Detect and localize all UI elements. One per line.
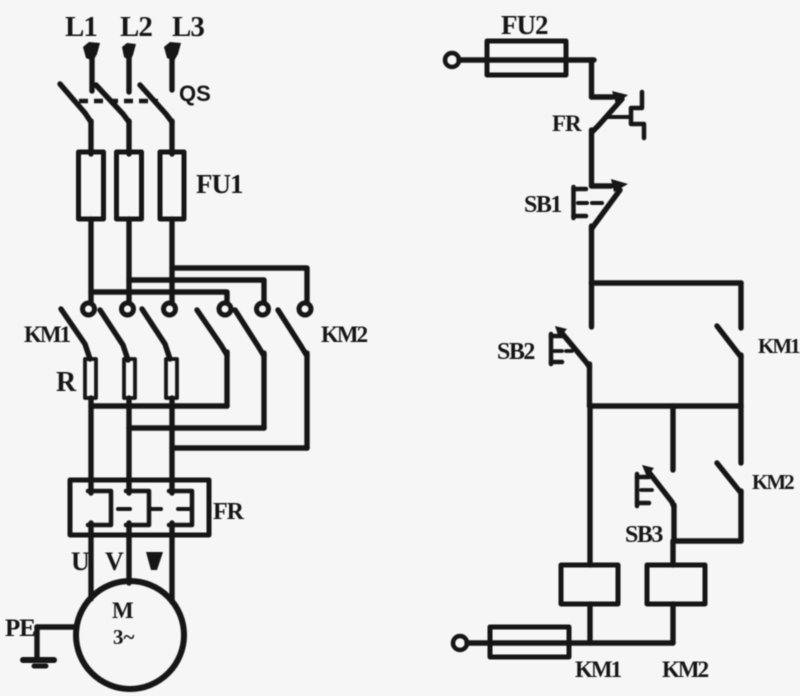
svg-text:PE: PE xyxy=(5,615,35,642)
FR heater tab 1 xyxy=(118,507,130,511)
wire R to FR phase2 xyxy=(126,398,131,481)
wire junction C horizontal xyxy=(674,538,741,543)
resistor R phase1 xyxy=(85,359,96,398)
button SB1 stem dash 1 xyxy=(578,201,587,205)
button SB1 jog xyxy=(592,183,612,188)
wire branch L1 to KM2 contact 4 xyxy=(91,292,227,302)
svg-text:KM1: KM1 xyxy=(24,322,71,347)
contact KM1 terminal circle 1 xyxy=(83,303,95,315)
wire FR to motor W xyxy=(169,535,174,602)
button SB1 cap top arm xyxy=(574,187,587,192)
button SB1 stem dash 2 xyxy=(592,201,602,205)
wire junction B horizontal xyxy=(590,403,742,409)
button SB1 blade xyxy=(592,190,621,229)
contact KM1 blade 2 xyxy=(100,310,128,360)
coil KM2 xyxy=(647,565,705,604)
wire junction A to KM1 aux contact xyxy=(738,283,743,328)
button SB2 arrowhead xyxy=(555,326,567,338)
contact KM1 aux blade xyxy=(717,326,741,357)
ground symbol bar 1 xyxy=(23,657,54,663)
fuse FU2 xyxy=(487,41,566,75)
wire inside FR box phase2 top xyxy=(126,480,131,493)
control terminal ring top xyxy=(445,53,459,67)
wire PE drop xyxy=(34,627,39,658)
svg-text:SB1: SB1 xyxy=(524,192,561,218)
button SB3 cap bar xyxy=(635,474,640,506)
svg-text:KM2: KM2 xyxy=(752,470,794,494)
coil KM1 xyxy=(561,565,618,604)
FR heater element phase2 xyxy=(126,491,149,525)
contact KM2 terminal circle 5 xyxy=(257,303,269,315)
wire terminal to FU2 and through xyxy=(459,57,594,62)
wire branch L2 to KM2 contact 5 xyxy=(129,280,264,302)
wire KM2 aux drop xyxy=(738,491,743,541)
switch QS blade 1 xyxy=(60,84,91,122)
contact KM1 blade 3 xyxy=(142,309,170,359)
contact KM2 terminal circle 4 xyxy=(219,303,231,315)
svg-text:L1: L1 xyxy=(65,11,97,43)
FR NC contact blade xyxy=(592,99,622,132)
switch QS blade 3 xyxy=(140,85,172,122)
svg-text:3~: 3~ xyxy=(113,625,135,649)
wire KM1 aux drop xyxy=(738,355,743,463)
button SB2 cap top arm xyxy=(551,334,562,339)
svg-text:KM1: KM1 xyxy=(575,657,622,682)
supply arrow L3 xyxy=(164,42,181,61)
svg-text:V: V xyxy=(105,547,124,576)
svg-text:U: U xyxy=(71,547,90,576)
FR NC contact linkage tick xyxy=(608,115,631,119)
svg-text:KM1: KM1 xyxy=(758,334,800,358)
svg-text:KM2: KM2 xyxy=(662,657,709,682)
wire junction C to KM2 coil xyxy=(670,541,675,565)
wire SB1 to junction A xyxy=(589,226,594,283)
svg-text:M: M xyxy=(112,598,134,623)
button SB2 blade xyxy=(561,332,590,367)
button SB2 stem dash 2 xyxy=(566,349,572,353)
wire bottom line xyxy=(467,640,673,645)
contact KM2 aux blade xyxy=(717,463,741,493)
supply arrow L1 xyxy=(83,42,100,61)
contact KM1 terminal circle 3 xyxy=(164,303,176,315)
wire KM2 contact 4 drop xyxy=(224,352,229,406)
wire KM2 coil to bottom line xyxy=(670,604,675,643)
svg-text:FR: FR xyxy=(552,111,582,136)
FR heater tab 2 xyxy=(149,507,161,511)
button SB3 cap top arm xyxy=(637,475,649,480)
wire FR to motor U xyxy=(88,535,93,599)
svg-text:FU1: FU1 xyxy=(196,169,243,199)
fuse FU1 phase1 xyxy=(79,152,104,219)
contact KM1 blade 1 xyxy=(61,309,90,359)
wire inside FR box phase1 bottom xyxy=(88,523,93,537)
FR NC contact arrowhead xyxy=(612,91,628,104)
contact KM2 blade 6 xyxy=(278,310,307,356)
wire L1 drop to QS xyxy=(89,57,94,91)
wire inside FR box phase3 bottom xyxy=(169,523,174,537)
wire inside FR box phase2 bottom xyxy=(126,523,131,537)
svg-text:KM2: KM2 xyxy=(321,322,368,347)
svg-text:SB3: SB3 xyxy=(625,522,663,548)
button SB1 cap bar xyxy=(571,187,576,218)
wire inside FR box phase1 top xyxy=(88,480,93,493)
button SB1 arrowhead xyxy=(611,179,628,192)
contact KM2 blade 5 xyxy=(235,310,264,356)
wire FU2 down to FR contact xyxy=(589,60,594,97)
wire KM1 coil to bottom line xyxy=(587,604,592,643)
svg-text:SB2: SB2 xyxy=(497,339,534,365)
wire FR contact to SB1 xyxy=(589,130,594,186)
FR NC contact jog xyxy=(592,94,614,99)
bottom fuse box xyxy=(490,627,569,657)
wire KM2 contact 5 drop xyxy=(261,353,266,428)
label W arrow xyxy=(146,552,163,570)
thermal relay FR box xyxy=(70,480,209,535)
wire KM2 bypass to line3 xyxy=(172,445,307,451)
svg-text:FU2: FU2 xyxy=(501,10,548,40)
ground symbol bar 2 xyxy=(34,664,46,669)
wire junction A to SB2 xyxy=(589,283,594,327)
button SB3 cap bottom arm xyxy=(637,501,649,506)
fuse FU1 phase3 xyxy=(160,152,184,219)
button SB2 cap bottom arm xyxy=(551,360,562,365)
control terminal ring bottom xyxy=(453,636,467,650)
FR heater element phase1 xyxy=(88,491,111,525)
FR heater element phase3 xyxy=(169,491,192,525)
wire QS to FU1 phase2 xyxy=(126,121,131,154)
wire junction B to KM1 coil xyxy=(587,406,592,565)
button SB3 stem dash xyxy=(641,488,652,492)
wire FR to motor V xyxy=(126,535,131,583)
button SB3 blade xyxy=(648,471,674,507)
FR heater tab 3 xyxy=(178,507,190,511)
wire L2 drop to QS xyxy=(126,57,131,92)
wire SB2 to junction B xyxy=(587,364,592,406)
switch QS blade 2 xyxy=(96,85,129,122)
wire R to FR phase3 xyxy=(169,398,174,481)
wire branch L3 to KM2 contact 6 xyxy=(172,268,307,302)
svg-text:FR: FR xyxy=(213,499,245,525)
switch QS linkage dashed line xyxy=(79,99,158,104)
button SB1 cap bottom arm xyxy=(574,214,587,219)
button SB2 stem dash 1 xyxy=(554,349,562,353)
svg-text:R: R xyxy=(56,367,77,398)
wire inside FR box phase3 top xyxy=(169,480,174,493)
button SB3 arrowhead xyxy=(642,465,654,477)
wire QS to FU1 phase3 xyxy=(169,121,174,154)
wire KM2 contact 6 drop xyxy=(304,353,309,448)
fuse FU1 phase2 xyxy=(117,152,142,219)
wire SB3 to junction C xyxy=(671,505,676,541)
resistor R phase3 xyxy=(166,359,177,398)
resistor R phase2 xyxy=(124,359,135,398)
wire junction B to SB3 xyxy=(670,406,675,470)
wire FU1 to KM1 contact 3 xyxy=(169,219,174,302)
contact KM2 terminal circle 6 xyxy=(299,303,311,315)
button SB2 cap bar xyxy=(549,334,554,364)
svg-text:L3: L3 xyxy=(172,11,204,43)
FR NC contact zigzag element xyxy=(631,92,644,138)
supply arrow L2 xyxy=(122,43,136,61)
contact KM2 blade 4 xyxy=(197,310,227,355)
contact KM1 terminal circle 2 xyxy=(122,303,134,315)
wire R to FR phase1 xyxy=(88,398,93,481)
wire PE to motor xyxy=(37,624,77,629)
wire FU1 to KM1 contact 1 xyxy=(88,219,93,302)
wire junction A horizontal xyxy=(592,280,742,286)
wire L3 drop to QS xyxy=(169,57,174,90)
wire FU1 to KM1 contact 2 xyxy=(126,219,131,302)
svg-text:QS: QS xyxy=(179,81,211,106)
svg-text:L2: L2 xyxy=(120,11,152,43)
wire QS to FU1 phase1 xyxy=(88,121,93,154)
motor M circle xyxy=(76,581,184,689)
wire KM2 bypass to line2 xyxy=(129,425,264,431)
wire KM2 bypass to line1 xyxy=(91,403,227,409)
